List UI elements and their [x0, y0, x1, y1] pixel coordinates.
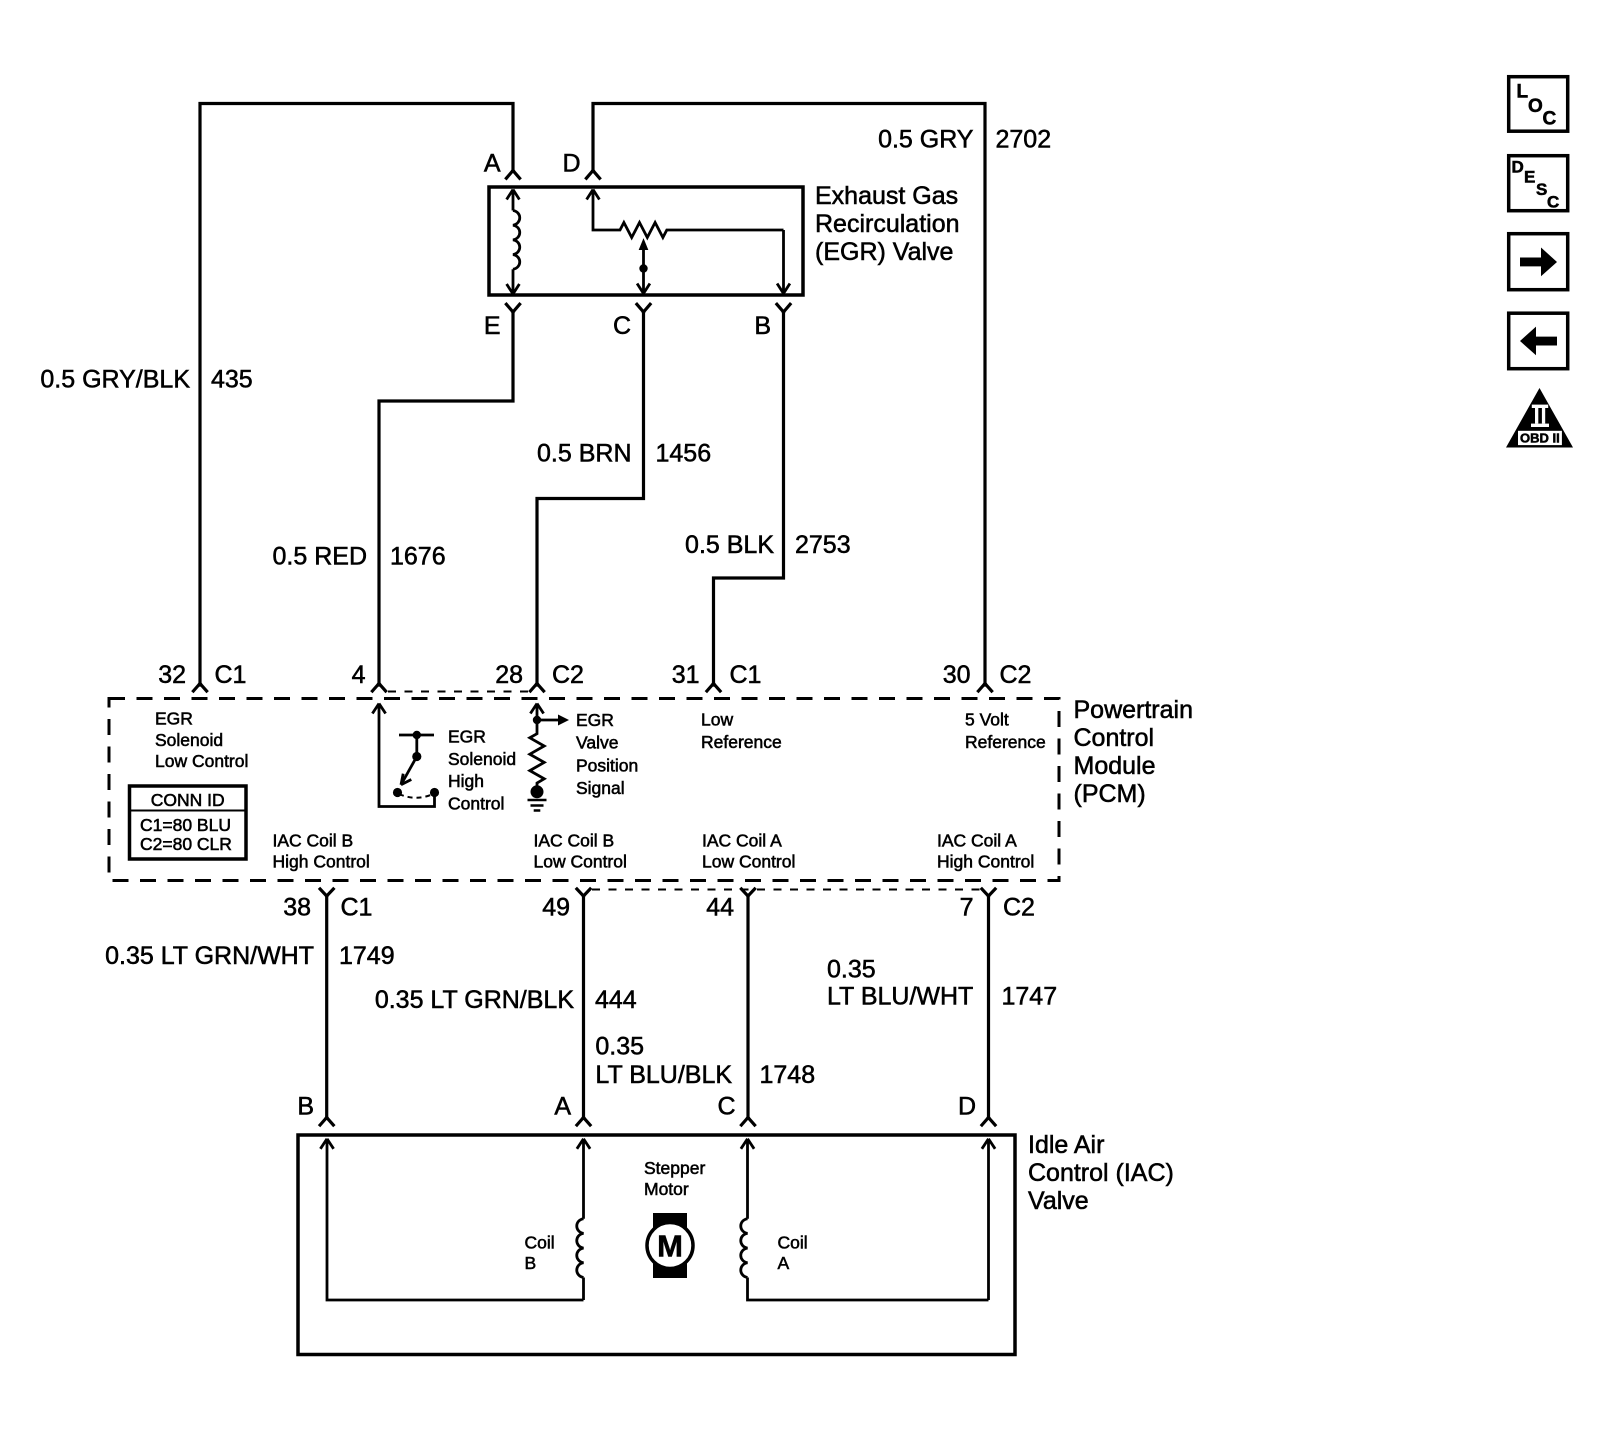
IAC coil B (pin A) [577, 1139, 590, 1300]
svg-text:IAC Coil B: IAC Coil B [273, 831, 354, 851]
wire top-left horizontal (0.5 GRY/BLK 435 net) [200, 104, 513, 686]
wire E to pin 4 (0.5 RED 1676 net) [379, 312, 513, 685]
connector fork IAC pin C [741, 1118, 754, 1126]
switch lever dot [412, 752, 421, 761]
connector fork pin D [586, 171, 599, 179]
switch contact dot left [393, 788, 402, 797]
svg-text:0.35 LT GRN/BLK: 0.35 LT GRN/BLK [375, 986, 574, 1014]
svg-text:Control: Control [1074, 724, 1155, 752]
svg-text:Reference: Reference [965, 732, 1046, 752]
svg-text:2702: 2702 [996, 126, 1052, 154]
svg-text:7: 7 [960, 894, 974, 922]
svg-text:L: L [1517, 82, 1529, 103]
svg-text:1749: 1749 [339, 942, 395, 970]
icon previous arrow button [1509, 313, 1568, 369]
connector fork pin 49 [577, 889, 590, 896]
svg-text:0.35 LT GRN/WHT: 0.35 LT GRN/WHT [105, 942, 314, 970]
svg-text:Powertrain: Powertrain [1074, 696, 1194, 724]
svg-text:C2: C2 [1000, 661, 1032, 689]
svg-text:38: 38 [283, 894, 311, 922]
svg-text:IAC Coil B: IAC Coil B [534, 831, 615, 851]
svg-text:0.35: 0.35 [827, 956, 876, 984]
svg-text:D: D [562, 150, 580, 178]
IAC coil A (pin C) [741, 1139, 989, 1300]
svg-text:IAC Coil A: IAC Coil A [702, 831, 782, 851]
wire pin 49 to IAC pin A (0.35 LT GRN/BLK 444 net) [582, 896, 585, 1118]
svg-text:CONN ID: CONN ID [151, 790, 225, 810]
connector fork IAC pin A [577, 1118, 590, 1126]
svg-text:1676: 1676 [390, 543, 446, 571]
svg-text:30: 30 [943, 661, 971, 689]
svg-text:435: 435 [211, 366, 253, 394]
CONN ID table box [130, 786, 247, 859]
svg-text:Signal: Signal [576, 778, 625, 798]
connector fork pin 44 [741, 889, 754, 896]
connector fork pin 38 C1 [320, 889, 333, 896]
EGR position sensor element (pin D to B) with resistor [587, 190, 790, 294]
svg-text:31: 31 [672, 661, 700, 689]
svg-text:S: S [1536, 180, 1547, 199]
icon DESC button [1509, 156, 1568, 211]
svg-text:444: 444 [595, 986, 637, 1014]
svg-text:Low Control: Low Control [155, 751, 248, 771]
svg-text:Valve: Valve [1028, 1187, 1089, 1215]
svg-text:0.5 BLK: 0.5 BLK [685, 531, 774, 559]
connector fork pin A [506, 171, 519, 179]
svg-text:High Control: High Control [273, 852, 370, 872]
svg-text:IAC Coil A: IAC Coil A [937, 831, 1017, 851]
svg-text:Solenoid: Solenoid [448, 749, 516, 769]
svg-text:C2=80 CLR: C2=80 CLR [140, 834, 232, 854]
svg-text:Motor: Motor [644, 1179, 689, 1199]
svg-text:C: C [717, 1093, 735, 1121]
svg-text:1747: 1747 [1002, 983, 1058, 1011]
svg-text:1456: 1456 [656, 440, 712, 468]
svg-text:Low Control: Low Control [702, 852, 795, 872]
svg-text:(EGR) Valve: (EGR) Valve [815, 238, 953, 266]
svg-text:32: 32 [158, 661, 186, 689]
icon next arrow button [1509, 234, 1568, 290]
connector fork pin 4 [372, 684, 385, 692]
svg-text:0.5 BRN: 0.5 BRN [537, 440, 631, 468]
wiper junction dot [639, 264, 647, 272]
svg-text:C2: C2 [1003, 894, 1035, 922]
switch contact dot right [430, 788, 439, 797]
svg-text:C2: C2 [552, 661, 584, 689]
svg-text:Position: Position [576, 755, 638, 775]
svg-text:49: 49 [542, 894, 570, 922]
svg-text:Module: Module [1074, 752, 1156, 780]
connector fork pin B [777, 304, 790, 312]
svg-text:Reference: Reference [701, 732, 782, 752]
svg-text:E: E [484, 312, 501, 340]
svg-text:C1: C1 [730, 661, 762, 689]
svg-text:2753: 2753 [795, 531, 851, 559]
pull resistor [530, 720, 544, 791]
connector fork IAC pin B [320, 1118, 333, 1126]
icon OBD II badge [1506, 388, 1573, 448]
connector fork pin C [637, 304, 650, 312]
junction dot pin 28 [533, 716, 541, 724]
EGR valve box [489, 187, 803, 295]
svg-text:B: B [297, 1093, 314, 1121]
EGR solenoid high control driver arrow into pin 4 [372, 704, 434, 807]
connector C2 fine dashed line (pins 49-7) [592, 889, 980, 891]
svg-text:Valve: Valve [576, 733, 618, 753]
svg-text:Control: Control [448, 794, 504, 814]
svg-text:D: D [1512, 158, 1524, 177]
stepper motor symbol [653, 1213, 687, 1278]
wire pin 38 to IAC pin B (0.35 LT GRN/WHT 1749 net) [325, 896, 328, 1118]
svg-text:LT BLU/WHT: LT BLU/WHT [827, 983, 973, 1011]
svg-text:EGR: EGR [448, 727, 486, 747]
svg-text:C: C [613, 312, 631, 340]
svg-text:Coil: Coil [525, 1233, 555, 1253]
svg-text:O: O [1528, 96, 1543, 117]
connector fork pin 7 C2 [982, 889, 995, 896]
ground junction dot [531, 785, 544, 798]
wire pin 7 to IAC pin D (0.35 LT BLU/WHT 1747 net) [987, 896, 990, 1118]
svg-text:0.5 GRY: 0.5 GRY [878, 126, 974, 154]
svg-text:OBD II: OBD II [1520, 431, 1560, 446]
wire C to pin 28 (0.5 BRN 1456 net) [537, 312, 644, 685]
IAC pin D lead with arrow [982, 1139, 995, 1300]
svg-text:(PCM): (PCM) [1074, 780, 1146, 808]
svg-text:Control (IAC): Control (IAC) [1028, 1159, 1174, 1187]
connector fork pin E [506, 304, 519, 312]
svg-text:5 Volt: 5 Volt [965, 710, 1009, 730]
EGR position sensor wiper (pin C) [637, 248, 650, 294]
connector fork pin 31 C1 [707, 684, 720, 692]
svg-text:0.5 GRY/BLK: 0.5 GRY/BLK [40, 366, 190, 394]
svg-text:4: 4 [352, 661, 366, 689]
svg-text:C1=80 BLU: C1=80 BLU [140, 815, 231, 835]
connector fork pin 30 C2 [978, 684, 991, 692]
switch pivot dot top [413, 731, 421, 739]
svg-text:C: C [1547, 193, 1559, 212]
svg-text:E: E [1524, 168, 1535, 187]
connector fork pin 32 C1 [193, 684, 206, 692]
EGR solenoid coil (pin A to E) with arrows [507, 190, 520, 295]
svg-text:B: B [754, 312, 771, 340]
svg-text:Low Control: Low Control [534, 852, 627, 872]
svg-text:B: B [525, 1253, 537, 1273]
svg-text:High: High [448, 771, 484, 791]
IAC pin B lead with arrow [320, 1139, 583, 1300]
svg-text:0.5 RED: 0.5 RED [273, 543, 367, 571]
IAC valve box [298, 1135, 1015, 1355]
svg-text:D: D [958, 1093, 976, 1121]
connector C2 fine dashed line (pins 4-28) [388, 691, 528, 693]
wire top-right horizontal (0.5 GRY 2702 net) [593, 104, 985, 686]
connector fork IAC pin D [982, 1118, 995, 1126]
svg-text:LT BLU/BLK: LT BLU/BLK [595, 1061, 732, 1089]
EGR valve position signal input at pin 28 [530, 704, 558, 721]
svg-text:C: C [1543, 109, 1557, 130]
svg-text:Coil: Coil [778, 1233, 808, 1253]
svg-text:Stepper: Stepper [644, 1158, 705, 1178]
wiper arrow head (filled) [639, 240, 647, 250]
icon LOC button [1509, 77, 1568, 132]
svg-text:44: 44 [706, 894, 734, 922]
connector fork pin 28 C2 [530, 684, 543, 692]
svg-text:Solenoid: Solenoid [155, 730, 223, 750]
svg-text:28: 28 [495, 661, 523, 689]
svg-text:EGR: EGR [155, 709, 193, 729]
svg-text:C1: C1 [215, 661, 247, 689]
ground symbol [528, 800, 547, 811]
CONN ID divider line [130, 810, 247, 812]
PCM dashed box [109, 699, 1059, 881]
svg-text:Idle Air: Idle Air [1028, 1131, 1104, 1159]
svg-text:Exhaust Gas: Exhaust Gas [815, 182, 958, 210]
wire B to pin 31 (0.5 BLK 2753 net) [714, 312, 784, 685]
svg-text:M: M [657, 1229, 683, 1264]
svg-text:1748: 1748 [760, 1061, 816, 1089]
svg-text:High Control: High Control [937, 852, 1034, 872]
svg-text:Recirculation: Recirculation [815, 210, 960, 238]
svg-text:A: A [554, 1093, 571, 1121]
svg-text:C1: C1 [341, 894, 373, 922]
svg-text:A: A [778, 1253, 790, 1273]
svg-text:0.35: 0.35 [595, 1033, 644, 1061]
signal arrow head (filled) [558, 715, 569, 726]
switch travel dashed arc [399, 794, 433, 798]
svg-text:Low: Low [701, 710, 733, 730]
EGR solenoid high control switch symbol [399, 735, 434, 785]
svg-text:EGR: EGR [576, 710, 614, 730]
wire pin 44 to IAC pin C (0.35 LT BLU/BLK 1748 net) [746, 896, 749, 1118]
svg-text:A: A [484, 150, 501, 178]
